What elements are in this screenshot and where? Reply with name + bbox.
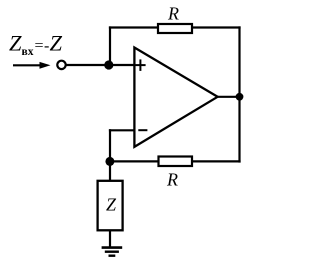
- wire down left rail to node B: [109, 129, 111, 161]
- wire inverting input: [109, 129, 134, 131]
- wire node A up to top rail: [109, 26, 111, 65]
- op-amp - input marking: [138, 129, 147, 131]
- svg-text:вх: вх: [22, 46, 34, 58]
- impedance Z1 box: [98, 181, 123, 231]
- input terminal circle: [57, 61, 65, 69]
- wire resistor R2 to right rail: [192, 160, 241, 162]
- node label Zвх = -Z: [9, 31, 63, 59]
- wire impedance Z to ground: [109, 230, 111, 246]
- svg-text:Z: Z: [50, 31, 63, 56]
- wire top rail left segment: [109, 26, 157, 28]
- wire right rail: [238, 26, 240, 162]
- svg-text:Z: Z: [106, 195, 117, 215]
- input arrow: [13, 62, 51, 69]
- wire node B to resistor R2: [110, 160, 159, 162]
- node A junction dot: [104, 60, 113, 69]
- ground: [102, 248, 123, 256]
- output node junction dot: [236, 93, 244, 101]
- svg-text:=: =: [35, 38, 44, 55]
- op-amp + input marking: [135, 59, 145, 71]
- node B junction dot: [105, 157, 114, 166]
- wire input terminal to node A: [66, 64, 134, 66]
- resistor R1 (top feedback): [158, 24, 192, 33]
- wire top rail right segment: [192, 26, 241, 28]
- svg-text:R: R: [167, 4, 179, 24]
- svg-text:R: R: [166, 170, 178, 190]
- wire node B down to impedance Z: [109, 161, 111, 181]
- op-amp U1: [134, 48, 217, 147]
- resistor R2 (bottom feedback): [159, 157, 193, 167]
- wire op-amp output: [217, 96, 240, 98]
- svg-text:Z: Z: [9, 31, 22, 56]
